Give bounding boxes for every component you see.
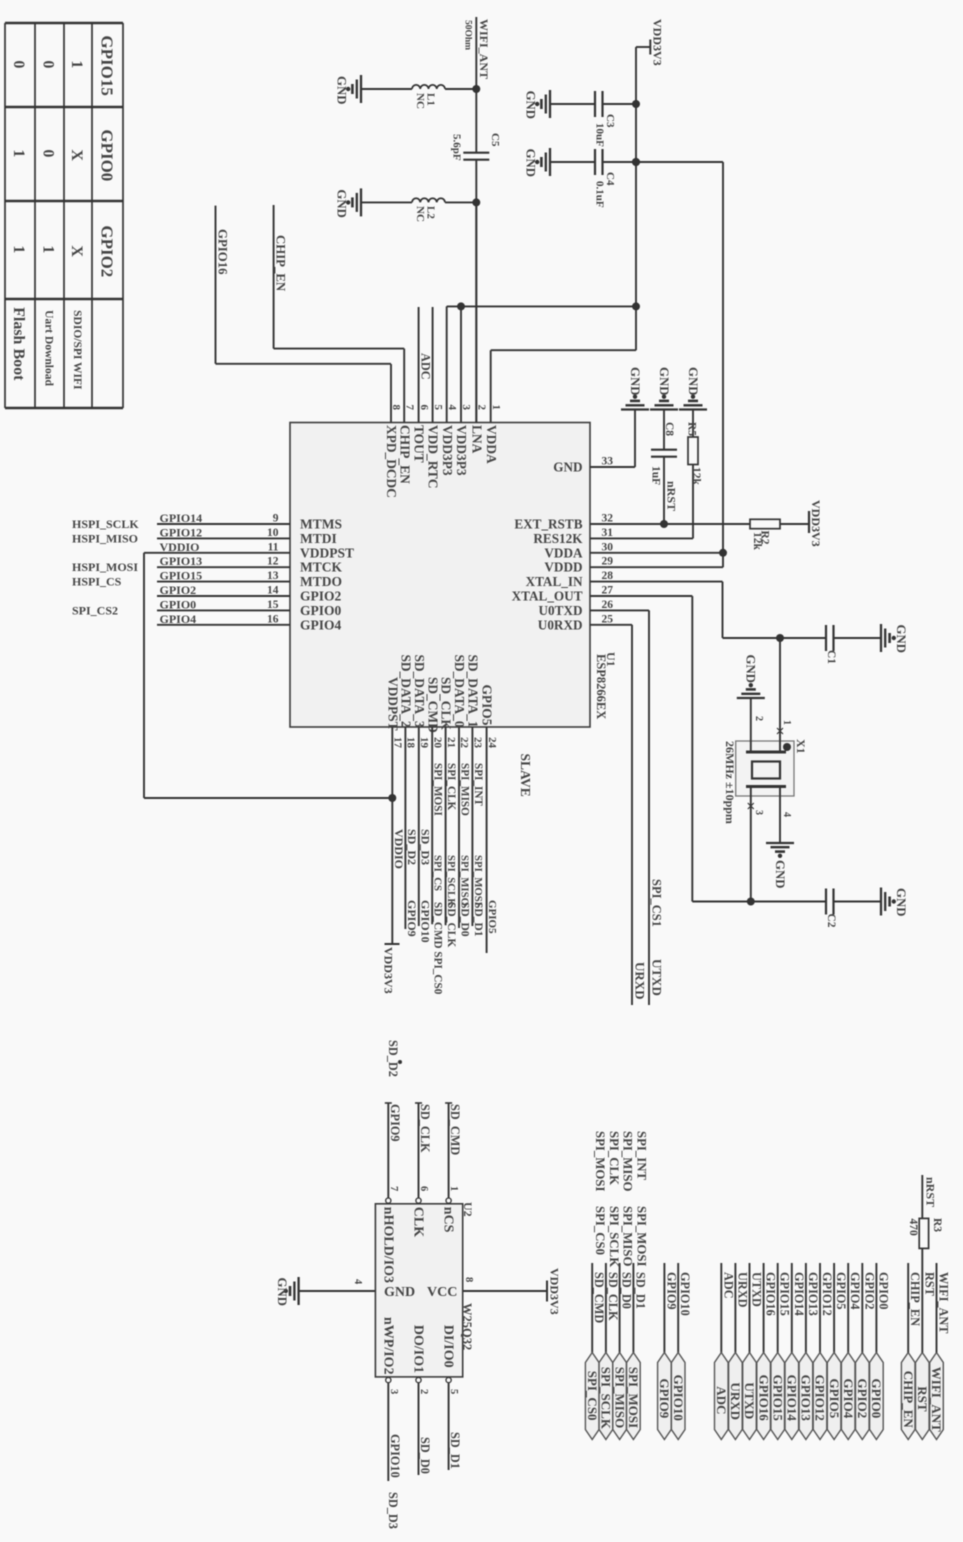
svg-text:SPI_CS0: SPI_CS0 xyxy=(593,1206,607,1255)
svg-text:SD_DATA_3: SD_DATA_3 xyxy=(412,654,427,727)
svg-text:4: 4 xyxy=(781,812,792,817)
svg-text:GPIO2: GPIO2 xyxy=(97,225,116,277)
svg-text:SPI_INT: SPI_INT xyxy=(634,1131,648,1181)
svg-text:2: 2 xyxy=(753,716,764,721)
svg-text:VDD_RTC: VDD_RTC xyxy=(426,425,441,489)
svg-text:SPI_CLK: SPI_CLK xyxy=(607,1131,621,1185)
svg-text:GPIO16: GPIO16 xyxy=(756,1375,771,1422)
svg-text:GPIO9: GPIO9 xyxy=(664,1272,678,1310)
svg-text:GND: GND xyxy=(524,91,538,119)
svg-text:1: 1 xyxy=(68,60,85,68)
svg-text:VCC: VCC xyxy=(427,1285,457,1300)
svg-text:0: 0 xyxy=(40,60,57,68)
svg-text:SPI_SCLK: SPI_SCLK xyxy=(445,855,457,907)
svg-text:1: 1 xyxy=(40,245,57,253)
svg-text:SD_D1: SD_D1 xyxy=(448,1432,462,1469)
svg-text:UTXD: UTXD xyxy=(742,1382,757,1419)
svg-text:1: 1 xyxy=(448,1186,459,1191)
svg-text:GND: GND xyxy=(335,189,349,217)
svg-text:GPIO5: GPIO5 xyxy=(480,684,495,725)
svg-text:0.1uF: 0.1uF xyxy=(594,181,606,208)
svg-text:URXD: URXD xyxy=(735,1272,749,1308)
svg-text:SD_D3: SD_D3 xyxy=(386,1492,400,1529)
svg-text:13: 13 xyxy=(267,570,279,582)
svg-text:11: 11 xyxy=(268,541,279,553)
svg-text:16: 16 xyxy=(267,613,279,625)
svg-text:LNA: LNA xyxy=(469,425,484,454)
svg-text:24: 24 xyxy=(486,737,498,749)
svg-text:VDD3V3: VDD3V3 xyxy=(548,1268,562,1315)
svg-text:19: 19 xyxy=(418,737,430,749)
svg-text:1: 1 xyxy=(781,720,792,725)
svg-text:GND: GND xyxy=(524,149,538,177)
svg-text:GPIO0: GPIO0 xyxy=(869,1379,884,1419)
svg-text:C1: C1 xyxy=(825,650,837,664)
svg-text:SPI_MOSI: SPI_MOSI xyxy=(634,1206,648,1266)
svg-text:SD_CMD: SD_CMD xyxy=(592,1272,606,1323)
svg-text:GPIO5: GPIO5 xyxy=(827,1379,842,1419)
svg-text:RES12K: RES12K xyxy=(533,531,583,546)
svg-text:MTMS: MTMS xyxy=(300,517,342,532)
svg-text:C8: C8 xyxy=(663,422,675,436)
svg-text:SLAVE: SLAVE xyxy=(518,754,533,797)
svg-text:GPIO16: GPIO16 xyxy=(216,229,230,275)
svg-text:UTXD: UTXD xyxy=(650,959,665,996)
svg-text:GPIO4: GPIO4 xyxy=(841,1379,856,1419)
svg-text:0: 0 xyxy=(40,149,57,157)
svg-text:GPIO2: GPIO2 xyxy=(855,1379,870,1419)
svg-text:GPIO13: GPIO13 xyxy=(799,1375,814,1422)
svg-text:7: 7 xyxy=(388,1186,399,1191)
svg-text:29: 29 xyxy=(602,556,614,568)
svg-text:GPIO16: GPIO16 xyxy=(764,1272,778,1316)
svg-text:ADC: ADC xyxy=(419,353,433,380)
svg-text:10: 10 xyxy=(267,527,279,539)
svg-text:RST: RST xyxy=(922,1272,936,1297)
svg-text:HSPI_MOSI: HSPI_MOSI xyxy=(72,560,138,574)
svg-text:GPIO2: GPIO2 xyxy=(862,1272,876,1310)
svg-text:50Ohm: 50Ohm xyxy=(462,20,472,50)
svg-text:GPIO0: GPIO0 xyxy=(876,1272,890,1310)
svg-text:SPI_CS2: SPI_CS2 xyxy=(72,603,118,617)
svg-text:SPI_MISO: SPI_MISO xyxy=(459,855,471,906)
svg-text:GPIO14: GPIO14 xyxy=(792,1272,806,1316)
svg-text:15: 15 xyxy=(267,599,279,611)
svg-text:5: 5 xyxy=(432,405,444,411)
svg-text:12k: 12k xyxy=(751,532,763,551)
svg-text:GPIO10: GPIO10 xyxy=(388,1434,402,1478)
svg-text:C2: C2 xyxy=(825,914,837,928)
svg-text:GPIO4: GPIO4 xyxy=(160,612,197,626)
svg-text:MTCK: MTCK xyxy=(300,560,342,575)
svg-text:SD_CLK: SD_CLK xyxy=(418,1104,432,1153)
svg-text:U2: U2 xyxy=(461,1202,475,1217)
svg-text:8: 8 xyxy=(390,405,402,411)
svg-text:VDD3V3: VDD3V3 xyxy=(382,947,396,994)
svg-text:SPI_SCLK: SPI_SCLK xyxy=(599,1367,614,1430)
svg-text:GPIO15: GPIO15 xyxy=(770,1375,785,1422)
svg-text:SD_DATA_0: SD_DATA_0 xyxy=(452,654,467,727)
svg-text:GPIO0: GPIO0 xyxy=(300,603,342,618)
svg-text:18: 18 xyxy=(405,737,417,749)
svg-text:0: 0 xyxy=(10,60,27,68)
svg-text:GPIO12: GPIO12 xyxy=(160,525,203,539)
svg-text:GPIO0: GPIO0 xyxy=(160,597,197,611)
svg-text:HSPI_MISO: HSPI_MISO xyxy=(72,531,138,545)
svg-text:7: 7 xyxy=(403,405,415,411)
svg-text:10uF: 10uF xyxy=(594,123,606,147)
svg-text:GPIO12: GPIO12 xyxy=(813,1375,828,1421)
svg-text:GND: GND xyxy=(275,1278,289,1306)
svg-text:SD_D0: SD_D0 xyxy=(418,1437,432,1474)
svg-text:3: 3 xyxy=(753,810,764,815)
svg-text:U0TXD: U0TXD xyxy=(539,603,583,618)
svg-text:GPIO14: GPIO14 xyxy=(160,511,203,525)
svg-text:5: 5 xyxy=(448,1389,459,1394)
svg-text:31: 31 xyxy=(602,527,614,539)
svg-text:26: 26 xyxy=(602,599,614,611)
svg-text:MTDI: MTDI xyxy=(300,531,337,546)
svg-text:GPIO12: GPIO12 xyxy=(820,1272,834,1316)
svg-text:SPI_MOSI: SPI_MOSI xyxy=(593,1131,607,1191)
svg-text:U0RXD: U0RXD xyxy=(538,617,583,632)
svg-text:nRST: nRST xyxy=(923,1177,937,1207)
svg-text:23: 23 xyxy=(472,737,484,749)
svg-text:2: 2 xyxy=(418,1389,429,1394)
svg-text:GND: GND xyxy=(384,1285,415,1300)
svg-text:6: 6 xyxy=(418,405,430,411)
svg-text:SD_CLK: SD_CLK xyxy=(606,1272,620,1321)
svg-text:SD_CMD: SD_CMD xyxy=(425,677,440,733)
svg-text:VDDIO: VDDIO xyxy=(160,540,200,554)
svg-text:SPI_SCLK: SPI_SCLK xyxy=(607,1206,621,1267)
svg-text:28: 28 xyxy=(602,570,614,582)
svg-text:nWP/IO2: nWP/IO2 xyxy=(380,1317,395,1375)
svg-text:12: 12 xyxy=(267,556,279,568)
svg-text:12k: 12k xyxy=(690,467,702,486)
svg-text:GND: GND xyxy=(335,76,349,104)
svg-text:GND: GND xyxy=(773,860,787,888)
svg-text:SD_DATA_2: SD_DATA_2 xyxy=(399,654,414,727)
svg-text:VDDPST: VDDPST xyxy=(300,545,354,560)
svg-text:R5: R5 xyxy=(686,422,698,436)
svg-text:GND: GND xyxy=(657,367,671,395)
svg-text:CHIP_EN: CHIP_EN xyxy=(908,1272,922,1326)
svg-text:GPIO9: GPIO9 xyxy=(657,1379,672,1419)
svg-text:VDD3V3: VDD3V3 xyxy=(651,19,665,66)
svg-text:Uart Download: Uart Download xyxy=(42,310,54,386)
svg-text:X: X xyxy=(68,245,85,257)
svg-text:SPI_MOSI: SPI_MOSI xyxy=(626,1367,641,1428)
svg-text:SPI_CS0: SPI_CS0 xyxy=(585,1371,600,1421)
svg-text:470: 470 xyxy=(907,1219,919,1237)
svg-text:SD_DATA_1: SD_DATA_1 xyxy=(466,654,481,727)
svg-text:CHIP_EN: CHIP_EN xyxy=(901,1371,916,1429)
svg-text:GPIO14: GPIO14 xyxy=(785,1375,800,1422)
svg-text:6: 6 xyxy=(418,1186,429,1191)
svg-text:VDDD: VDDD xyxy=(544,560,582,575)
svg-text:SD_D1: SD_D1 xyxy=(472,902,484,937)
svg-text:DI/IO0: DI/IO0 xyxy=(441,1325,456,1368)
svg-text:SPI_MISO: SPI_MISO xyxy=(459,763,471,816)
svg-text:ADC: ADC xyxy=(721,1272,735,1299)
svg-text:XPD_DCDC: XPD_DCDC xyxy=(384,425,399,498)
svg-text:SD_CMD: SD_CMD xyxy=(448,1104,462,1155)
svg-text:W25Q32: W25Q32 xyxy=(460,1303,474,1350)
svg-text:UTXD: UTXD xyxy=(750,1272,764,1307)
svg-text:nHOLD/IO3: nHOLD/IO3 xyxy=(380,1207,395,1283)
svg-text:17: 17 xyxy=(392,737,404,749)
svg-text:VDD3P3: VDD3P3 xyxy=(454,425,469,476)
svg-text:R3: R3 xyxy=(931,1218,943,1232)
svg-text:GPIO10: GPIO10 xyxy=(418,900,432,943)
svg-text:WIFI_ANT: WIFI_ANT xyxy=(477,19,491,79)
svg-text:EXT_RSTB: EXT_RSTB xyxy=(514,517,582,532)
svg-text:GND: GND xyxy=(894,888,908,916)
svg-text:VDDIO: VDDIO xyxy=(392,829,406,869)
svg-text:VDDA: VDDA xyxy=(484,425,499,464)
svg-text:GPIO0: GPIO0 xyxy=(97,129,116,181)
svg-text:SPI_MISO: SPI_MISO xyxy=(621,1206,635,1266)
svg-text:SDIO/SPI WIFI: SDIO/SPI WIFI xyxy=(71,310,83,390)
svg-text:2: 2 xyxy=(476,405,488,411)
svg-text:X1: X1 xyxy=(794,739,808,754)
svg-text:9: 9 xyxy=(273,513,279,525)
svg-text:14: 14 xyxy=(267,585,279,597)
svg-text:CLK: CLK xyxy=(411,1207,426,1237)
svg-text:GND: GND xyxy=(553,460,582,475)
svg-text:3: 3 xyxy=(460,405,472,411)
svg-text:30: 30 xyxy=(602,541,614,553)
svg-text:HSPI_CS: HSPI_CS xyxy=(72,575,122,589)
svg-text:GND: GND xyxy=(744,655,758,683)
svg-text:GPIO13: GPIO13 xyxy=(160,554,203,568)
svg-text:33: 33 xyxy=(602,456,614,468)
svg-text:8: 8 xyxy=(463,1277,474,1282)
svg-text:ADC: ADC xyxy=(714,1386,729,1414)
svg-text:nRST: nRST xyxy=(665,481,679,511)
svg-text:VDD3P3: VDD3P3 xyxy=(440,425,455,476)
svg-text:CHIP_EN: CHIP_EN xyxy=(397,425,412,484)
svg-text:GPIO10: GPIO10 xyxy=(678,1272,692,1316)
svg-text:SD_CMD SPI_CS0: SD_CMD SPI_CS0 xyxy=(432,902,444,995)
svg-text:SPI_MOSI: SPI_MOSI xyxy=(432,763,444,816)
svg-text:MTDO: MTDO xyxy=(300,574,342,589)
svg-text:XTAL_OUT: XTAL_OUT xyxy=(512,589,583,604)
svg-text:GPIO4: GPIO4 xyxy=(300,617,342,632)
svg-text:22: 22 xyxy=(458,737,470,749)
svg-text:VDD3V3: VDD3V3 xyxy=(809,500,823,547)
svg-text:SPI_CLK: SPI_CLK xyxy=(445,763,457,811)
svg-text:SPI_MISO: SPI_MISO xyxy=(621,1131,635,1191)
svg-text:GND: GND xyxy=(686,367,700,395)
svg-text:GPIO13: GPIO13 xyxy=(806,1272,820,1316)
svg-text:21: 21 xyxy=(445,737,457,748)
svg-text:GPIO15: GPIO15 xyxy=(778,1272,792,1316)
svg-text:1: 1 xyxy=(10,149,27,157)
svg-text:URXD: URXD xyxy=(633,962,648,1000)
svg-text:SD_CLK: SD_CLK xyxy=(445,902,457,947)
svg-text:WIFI_ANT: WIFI_ANT xyxy=(937,1272,951,1334)
svg-text:SPI_MISO: SPI_MISO xyxy=(612,1367,627,1428)
svg-text:GPIO9: GPIO9 xyxy=(405,900,419,937)
svg-text:SD_D1: SD_D1 xyxy=(633,1272,647,1309)
svg-text:Flash Boot: Flash Boot xyxy=(10,307,27,381)
svg-text:GPIO10: GPIO10 xyxy=(671,1375,686,1421)
svg-text:GND: GND xyxy=(894,625,908,653)
svg-text:CHIP_EN: CHIP_EN xyxy=(274,235,288,292)
svg-text:nCS: nCS xyxy=(441,1207,456,1233)
svg-text:ESP8266EX: ESP8266EX xyxy=(594,654,608,719)
svg-text:DO/IO1: DO/IO1 xyxy=(411,1325,426,1373)
svg-text:1uF: 1uF xyxy=(650,466,662,485)
svg-text:GPIO4: GPIO4 xyxy=(848,1272,862,1310)
svg-text:4: 4 xyxy=(446,405,458,411)
svg-text:GPIO5: GPIO5 xyxy=(834,1272,848,1310)
svg-text:SPI_INT: SPI_INT xyxy=(472,763,484,806)
svg-text:HSPI_SCLK: HSPI_SCLK xyxy=(72,517,139,531)
svg-text:GPIO9: GPIO9 xyxy=(388,1104,402,1142)
svg-text:GPIO2: GPIO2 xyxy=(160,583,197,597)
svg-text:SPI_CS1: SPI_CS1 xyxy=(650,879,664,927)
svg-text:SD_D2: SD_D2 xyxy=(405,829,419,865)
svg-text:4: 4 xyxy=(352,1279,363,1285)
svg-text:VDDA: VDDA xyxy=(544,545,583,560)
svg-text:5.6pF: 5.6pF xyxy=(450,134,462,161)
svg-text:1: 1 xyxy=(490,405,502,411)
svg-text:32: 32 xyxy=(602,513,614,525)
svg-text:GND: GND xyxy=(628,367,642,395)
svg-text:26MHz ±10ppm: 26MHz ±10ppm xyxy=(723,741,737,824)
svg-text:VDDPST: VDDPST xyxy=(385,677,400,731)
svg-text:SPI_MOSI: SPI_MOSI xyxy=(472,855,484,906)
svg-text:SPI_CS: SPI_CS xyxy=(432,855,444,891)
svg-text:NC: NC xyxy=(414,93,426,109)
svg-text:27: 27 xyxy=(602,585,614,597)
svg-text:3: 3 xyxy=(388,1389,399,1394)
svg-text:1: 1 xyxy=(10,245,27,253)
svg-text:GPIO15: GPIO15 xyxy=(97,35,116,95)
svg-text:X: X xyxy=(68,149,85,161)
svg-text:SD_D0: SD_D0 xyxy=(459,902,471,937)
svg-text:SD_D3: SD_D3 xyxy=(418,829,432,865)
svg-text:25: 25 xyxy=(602,613,614,625)
svg-text:RST: RST xyxy=(915,1386,930,1412)
svg-text:SD_D2: SD_D2 xyxy=(386,1040,400,1077)
svg-text:URXD: URXD xyxy=(728,1382,743,1420)
svg-text:WIFI_ANT: WIFI_ANT xyxy=(929,1367,944,1432)
svg-text:GPIO5: GPIO5 xyxy=(486,900,498,934)
svg-text:TOUT: TOUT xyxy=(412,425,427,463)
svg-text:SD_D0: SD_D0 xyxy=(620,1272,634,1309)
svg-text:C5: C5 xyxy=(489,133,501,147)
svg-text:GPIO2: GPIO2 xyxy=(300,589,342,604)
svg-text:XTAL_IN: XTAL_IN xyxy=(526,574,583,589)
svg-text:SD_CLK: SD_CLK xyxy=(439,677,454,730)
svg-text:NC: NC xyxy=(414,206,426,222)
svg-text:GPIO15: GPIO15 xyxy=(160,569,203,583)
svg-text:20: 20 xyxy=(431,737,443,749)
